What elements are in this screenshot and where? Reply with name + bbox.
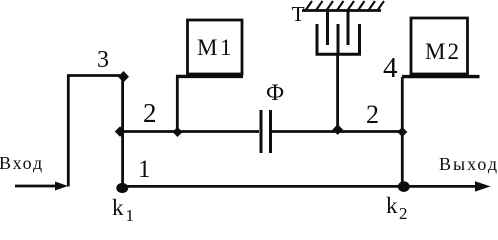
wire: T stem xyxy=(336,54,339,131)
label M1 xyxy=(197,35,234,61)
label 4 xyxy=(383,52,398,85)
label T xyxy=(292,2,305,27)
node junction 1-2 left xyxy=(115,126,125,136)
node k2 xyxy=(398,181,410,192)
label Vyhod xyxy=(439,154,498,175)
label Vhod xyxy=(0,153,44,174)
input arrow xyxy=(15,182,68,191)
wire: input riser xyxy=(67,76,70,187)
wire: M1 riser xyxy=(176,77,179,132)
wire: bus left segment xyxy=(121,130,259,133)
label k1 xyxy=(112,195,134,226)
label 2 right xyxy=(366,100,379,130)
node k1 xyxy=(116,183,128,193)
label 3 xyxy=(97,47,109,74)
node 2 (M1 tap) xyxy=(173,127,183,137)
wire: bus right segment xyxy=(272,130,402,133)
output bottom line with arrow xyxy=(119,181,491,191)
label M2 xyxy=(425,39,461,65)
wire: M2 riser and right vertical to k2 xyxy=(401,77,404,187)
label 2 left xyxy=(143,98,157,129)
label k2 xyxy=(386,193,408,224)
label 1 xyxy=(138,156,151,184)
transducer T support hatched ceiling xyxy=(302,1,384,11)
block M2 xyxy=(411,18,468,74)
wire: M2 baseline xyxy=(402,75,480,78)
node 3 xyxy=(118,71,129,82)
transducer T fork prongs xyxy=(328,12,349,46)
capacitor F plates xyxy=(261,110,271,153)
block M1 xyxy=(188,20,243,74)
label F xyxy=(266,80,284,106)
wire: M1 baseline xyxy=(176,75,243,78)
transducer T cup electrode xyxy=(316,24,362,54)
node 2 right xyxy=(397,127,407,137)
wire: top step to node 3 xyxy=(67,74,124,77)
node T stem on bus xyxy=(332,124,343,135)
wire: left vertical k1 xyxy=(121,76,124,188)
